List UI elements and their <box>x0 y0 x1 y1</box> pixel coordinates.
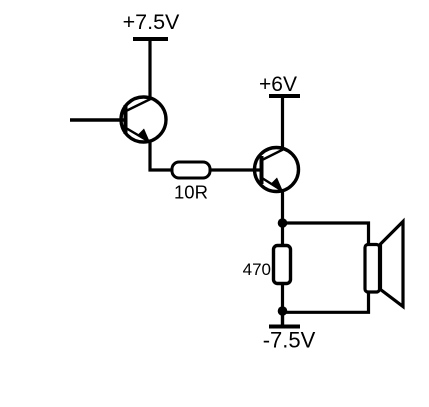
svg-text:+7.5V: +7.5V <box>123 10 180 34</box>
wire Q1 emitter down <box>148 141 151 172</box>
wire Q1 base lead <box>70 118 124 121</box>
wire supply to Q1 collector <box>148 40 151 99</box>
wire R2 to node bottom <box>281 283 284 308</box>
wire R1 to Q2 base <box>210 168 261 171</box>
wire node to resistor R2 <box>281 225 284 247</box>
ground bar -7.5V <box>269 325 300 329</box>
wire Q2 emitter down <box>281 190 284 223</box>
wire emitter to resistor R1 <box>149 168 174 171</box>
svg-text:-7.5V: -7.5V <box>263 328 316 353</box>
transistor Q1 <box>121 97 166 144</box>
node junction top <box>278 218 288 228</box>
speaker LS1 body <box>365 245 380 293</box>
resistor R2 470 <box>274 246 291 284</box>
wire node to ground <box>281 314 284 326</box>
speaker LS1 cone <box>381 222 404 307</box>
wire node to speaker bottom <box>284 288 369 312</box>
node junction bottom <box>278 306 288 316</box>
supply bar +7.5V <box>133 37 168 41</box>
wire supply to Q2 collector <box>281 97 284 149</box>
supply bar +6V <box>269 94 300 98</box>
transistor Q2 <box>255 148 299 193</box>
svg-text:10R: 10R <box>174 182 208 203</box>
svg-text:470: 470 <box>243 260 271 279</box>
resistor R1 10R <box>172 162 210 178</box>
svg-text:+6V: +6V <box>259 73 297 96</box>
wire node to speaker top <box>284 223 369 246</box>
